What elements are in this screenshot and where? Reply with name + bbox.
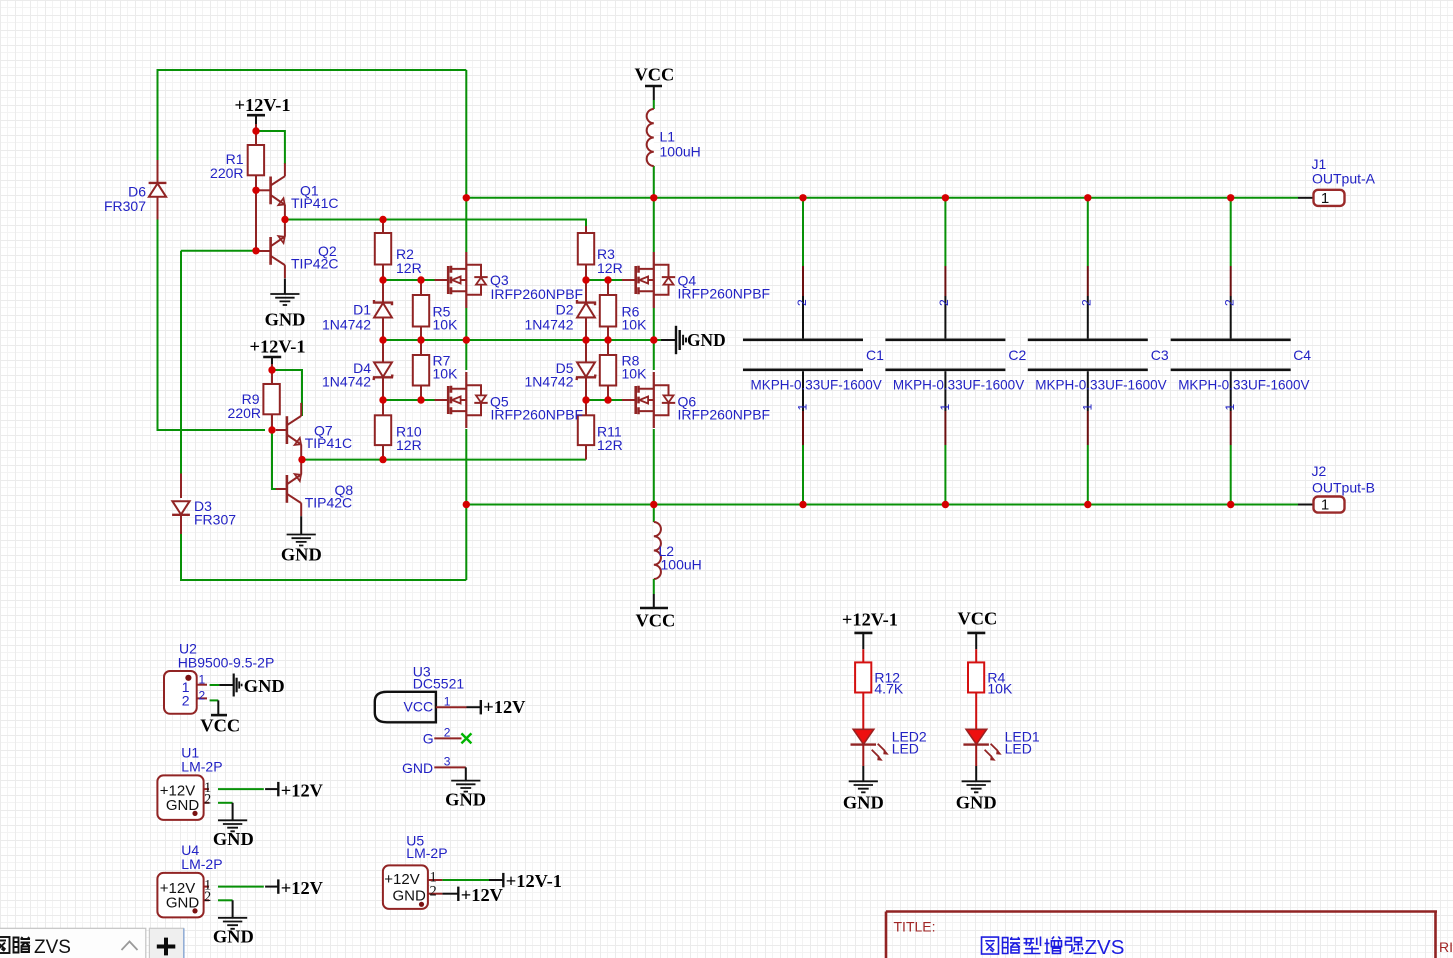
svg-text:+12V-1: +12V-1 bbox=[250, 337, 306, 357]
U3 pin 1 bbox=[436, 706, 467, 708]
node R6 top bbox=[604, 276, 611, 283]
svg-text:10K: 10K bbox=[433, 365, 459, 381]
node bottom rail x654 bbox=[650, 501, 657, 508]
svg-text:+12V: +12V bbox=[461, 885, 504, 905]
wire box bottom edge bbox=[180, 579, 466, 581]
wire bottom rail y=504.5 bbox=[466, 504, 1298, 506]
diode D6 bbox=[157, 160, 159, 183]
svg-text:OUTput-B: OUTput-B bbox=[1312, 479, 1375, 495]
svg-text:2: 2 bbox=[444, 725, 451, 739]
node +12V-1/R1 bbox=[252, 127, 259, 134]
svg-text:VCC: VCC bbox=[404, 699, 434, 715]
U5 pin 2 bbox=[428, 893, 443, 895]
U5 pin 1 bbox=[428, 879, 443, 881]
svg-text:4.7K: 4.7K bbox=[874, 680, 903, 696]
svg-text:TIP42C: TIP42C bbox=[305, 495, 352, 511]
node gnd rail x654 bbox=[650, 336, 657, 343]
node C3 top bbox=[1084, 194, 1091, 201]
wire top box edge bbox=[158, 69, 467, 71]
title text 图腾型增强ZVS (hand-drawn CJK) bbox=[982, 937, 1083, 954]
svg-text:12R: 12R bbox=[396, 260, 422, 276]
node Q7 base bbox=[268, 426, 275, 433]
svg-text:ZVS: ZVS bbox=[1085, 936, 1125, 958]
svg-text:LM-2P: LM-2P bbox=[406, 845, 447, 861]
svg-text:C2: C2 bbox=[1008, 347, 1026, 363]
wire x=181 column (Q2 base down to D3) bbox=[180, 251, 182, 474]
transistor Q8 bbox=[276, 459, 301, 516]
power flag +12V-1 (top) bbox=[247, 114, 265, 117]
zener diode D1 bbox=[382, 280, 384, 303]
no-connect flag X bbox=[461, 733, 471, 743]
transistor Q1 bbox=[260, 163, 285, 220]
svg-text:1N4742: 1N4742 bbox=[322, 317, 371, 333]
svg-text:FR307: FR307 bbox=[104, 198, 146, 214]
U4 pin 2 bbox=[204, 899, 209, 901]
svg-text:2: 2 bbox=[182, 693, 190, 709]
resistor R9 bbox=[271, 370, 273, 384]
BOTTOM TAB BAR bbox=[0, 928, 184, 958]
svg-text:IRFP260NPBF: IRFP260NPBF bbox=[678, 286, 771, 302]
transistor Q2 bbox=[260, 221, 285, 278]
svg-text:J2: J2 bbox=[1312, 463, 1327, 479]
svg-text:100uH: 100uH bbox=[660, 143, 701, 159]
node R7 bottom bbox=[417, 396, 424, 403]
svg-text:1: 1 bbox=[199, 672, 206, 686]
node C3 bottom bbox=[1084, 501, 1091, 508]
svg-text:L1: L1 bbox=[660, 128, 676, 144]
svg-text:VCC: VCC bbox=[200, 716, 240, 736]
node Q1/Q2 emitters bbox=[281, 216, 288, 223]
title block border bbox=[886, 912, 1437, 958]
wire main right column x=654 bbox=[653, 100, 655, 522]
power flag VCC U2 bbox=[211, 714, 227, 717]
svg-text:GND: GND bbox=[402, 760, 433, 776]
svg-text:1: 1 bbox=[1321, 497, 1329, 514]
node gnd rail x466 bbox=[463, 336, 470, 343]
svg-text:12R: 12R bbox=[396, 437, 422, 453]
node gate2 right bbox=[582, 396, 589, 403]
resistor R12 + LED2 column bbox=[849, 633, 889, 792]
svg-text:+12V: +12V bbox=[281, 781, 324, 801]
node R2 top bbox=[379, 216, 386, 223]
svg-text:3: 3 bbox=[444, 754, 451, 768]
wire gnd rail y=340 bbox=[383, 339, 661, 341]
svg-text:1N4742: 1N4742 bbox=[524, 317, 573, 333]
svg-text:GND: GND bbox=[687, 330, 726, 350]
svg-text:C3: C3 bbox=[1151, 347, 1169, 363]
svg-text:TIP41C: TIP41C bbox=[291, 195, 338, 211]
svg-text:+12V: +12V bbox=[384, 871, 419, 888]
svg-text:2: 2 bbox=[937, 299, 951, 306]
mosfet Q4 bbox=[622, 252, 675, 308]
wire below D3 to box bottom bbox=[180, 534, 182, 580]
svg-text:220R: 220R bbox=[210, 165, 243, 181]
resistor R8 bbox=[607, 340, 609, 355]
svg-text:RI: RI bbox=[1439, 939, 1453, 955]
node top rail x654 bbox=[650, 194, 657, 201]
svg-text:MKPH-0.33UF-1600V: MKPH-0.33UF-1600V bbox=[1035, 378, 1166, 393]
wire Q8 base link vertical bbox=[272, 430, 283, 489]
mosfet Q6 bbox=[622, 372, 675, 428]
wire +12V-1 to Q1 collector elbow bbox=[256, 131, 285, 164]
svg-text:FR307: FR307 bbox=[194, 512, 236, 528]
node R10 bottom bbox=[379, 456, 386, 463]
U2 pin 2 bbox=[197, 697, 207, 699]
resistor R1 bbox=[255, 131, 257, 145]
U4 pin 1 bbox=[204, 886, 209, 888]
svg-text:VCC: VCC bbox=[635, 65, 675, 85]
svg-text:220R: 220R bbox=[228, 405, 261, 421]
resistor R6 bbox=[607, 280, 609, 295]
connector J2 bbox=[1298, 504, 1314, 506]
svg-text:1: 1 bbox=[1223, 404, 1237, 411]
node C1 top bbox=[799, 194, 806, 201]
power flag +12V U1 bbox=[277, 782, 279, 796]
TITLE BLOCK bbox=[886, 912, 1453, 958]
U2 pin 1 bbox=[197, 684, 207, 686]
svg-text:2: 2 bbox=[795, 299, 809, 306]
capacitor C2 bbox=[885, 198, 1005, 505]
svg-text:GND: GND bbox=[956, 793, 997, 813]
node C4/J2 bbox=[1227, 501, 1234, 508]
svg-text:1: 1 bbox=[938, 404, 952, 411]
svg-text:GND: GND bbox=[445, 790, 486, 810]
svg-text:GND: GND bbox=[843, 793, 884, 813]
zener diode D5 bbox=[585, 340, 587, 362]
svg-text:TIP42C: TIP42C bbox=[291, 256, 338, 272]
svg-text:VCC: VCC bbox=[958, 609, 998, 629]
U1 pin 1 bbox=[204, 788, 209, 790]
wire gate row 1 right bbox=[586, 279, 624, 281]
ground under Q8 bbox=[300, 516, 302, 534]
resistor R4 + LED1 column bbox=[962, 633, 1002, 792]
wire gate row 1 left bbox=[383, 279, 436, 281]
node Q7/Q8 emitters bbox=[298, 456, 305, 463]
node R5 top bbox=[417, 276, 424, 283]
svg-text:IRFP260NPBF: IRFP260NPBF bbox=[491, 406, 584, 422]
svg-text:10K: 10K bbox=[622, 365, 648, 381]
resistor R7 bbox=[420, 340, 422, 355]
ground flag U1 bbox=[218, 820, 247, 831]
power flag +12V-1 (second) bbox=[263, 356, 281, 359]
node C1 bottom bbox=[799, 501, 806, 508]
wire main left column x=466 bbox=[465, 70, 467, 580]
resistor R5 bbox=[420, 280, 422, 295]
inductor L2 + power flag VCC bottom bbox=[654, 522, 661, 579]
resistor R3 bbox=[585, 226, 587, 233]
svg-text:2: 2 bbox=[204, 791, 211, 807]
svg-text:C4: C4 bbox=[1293, 347, 1311, 363]
power flag +12V U4 bbox=[277, 879, 279, 893]
wire red R1 bottom to Q2 base bbox=[255, 190, 257, 251]
svg-text:LM-2P: LM-2P bbox=[181, 758, 222, 774]
U COMPONENTS bbox=[157, 641, 562, 947]
wire emitter row Q7/Q8 y=459.6 bbox=[302, 459, 586, 461]
wire Q7 collector elbow from +12V-1 node bbox=[272, 370, 302, 416]
svg-text:GND: GND bbox=[281, 545, 322, 565]
svg-text:+12V: +12V bbox=[483, 697, 526, 717]
mosfet Q5 bbox=[435, 372, 488, 428]
node rail D2 bbox=[582, 336, 589, 343]
node rail R5 bbox=[417, 336, 424, 343]
svg-text:ZVS: ZVS bbox=[34, 937, 71, 958]
power flag VCC top + inductor L1 bbox=[645, 85, 662, 88]
wire top rail y=198 bbox=[466, 197, 1298, 199]
ground flag U2 (rotated) bbox=[234, 674, 242, 697]
node Q1 base bbox=[252, 187, 259, 194]
svg-text:GND: GND bbox=[213, 927, 254, 947]
node +12V-1/R9 bbox=[268, 366, 275, 373]
mosfet Q3 bbox=[435, 252, 488, 308]
svg-text:IRFP260NPBF: IRFP260NPBF bbox=[491, 286, 584, 302]
svg-text:1: 1 bbox=[1080, 404, 1094, 411]
svg-text:TIP41C: TIP41C bbox=[305, 435, 352, 451]
ground flag U3 bbox=[451, 781, 480, 792]
svg-text:HB9500-9.5-2P: HB9500-9.5-2P bbox=[178, 654, 275, 670]
node rail R6 bbox=[604, 336, 611, 343]
node gate1 left bbox=[379, 276, 386, 283]
svg-text:1: 1 bbox=[1321, 190, 1329, 207]
svg-text:MKPH-0.33UF-1600V: MKPH-0.33UF-1600V bbox=[1178, 378, 1309, 393]
svg-text:2: 2 bbox=[199, 689, 206, 703]
svg-text:TITLE:: TITLE: bbox=[894, 919, 936, 935]
wire left column lower (D6 to Q7 base row) bbox=[158, 220, 266, 431]
svg-text:1: 1 bbox=[444, 695, 451, 709]
svg-text:GND: GND bbox=[265, 310, 306, 330]
ground under Q2 bbox=[284, 279, 286, 295]
svg-text:+12V: +12V bbox=[281, 878, 324, 898]
svg-text:100uH: 100uH bbox=[661, 556, 702, 572]
svg-text:2: 2 bbox=[430, 883, 437, 899]
svg-text:MKPH-0.33UF-1600V: MKPH-0.33UF-1600V bbox=[751, 378, 882, 393]
svg-text:GND: GND bbox=[213, 829, 254, 849]
wire gate row 2 left bbox=[383, 399, 436, 401]
svg-text:1N4742: 1N4742 bbox=[322, 374, 371, 390]
svg-text:+12V-1: +12V-1 bbox=[506, 871, 562, 891]
U1 pin 2 bbox=[204, 802, 209, 804]
svg-text:MKPH-0.33UF-1600V: MKPH-0.33UF-1600V bbox=[893, 378, 1024, 393]
ground flag U4 bbox=[218, 918, 247, 929]
wire left column upper (to D6) bbox=[157, 69, 159, 160]
node C2 bottom bbox=[942, 501, 949, 508]
node bottom rail x466 bbox=[463, 501, 470, 508]
diode D3 bbox=[180, 474, 182, 499]
svg-text:OUTput-A: OUTput-A bbox=[1312, 171, 1376, 187]
power flag +12V U5 bbox=[457, 887, 459, 901]
svg-text:LED: LED bbox=[1005, 741, 1032, 757]
node Q2 base bbox=[252, 247, 259, 254]
svg-text:10K: 10K bbox=[433, 317, 459, 333]
connector J1 bbox=[1298, 197, 1314, 199]
svg-text:2: 2 bbox=[204, 889, 211, 905]
ground flag mid rail (rotated) bbox=[661, 339, 676, 341]
svg-text:D1: D1 bbox=[353, 301, 371, 317]
wire Q1/Q2 emitter row y=219.5 to R3 top bbox=[285, 220, 586, 229]
svg-text:1N4742: 1N4742 bbox=[524, 374, 573, 390]
zener diode D4 bbox=[382, 340, 384, 362]
svg-text:D2: D2 bbox=[556, 301, 574, 317]
node gate1 right bbox=[582, 276, 589, 283]
svg-text:12R: 12R bbox=[597, 260, 623, 276]
power flag +12V U3 bbox=[480, 700, 482, 714]
resistor R11 bbox=[585, 400, 587, 415]
svg-text:12R: 12R bbox=[597, 437, 623, 453]
svg-text:1: 1 bbox=[796, 404, 810, 411]
svg-text:VCC: VCC bbox=[636, 611, 676, 631]
svg-text:DC5521: DC5521 bbox=[413, 675, 465, 691]
resistor R2 bbox=[382, 220, 384, 234]
transistor Q7 bbox=[276, 403, 301, 460]
zener diode D2 bbox=[585, 280, 587, 303]
node R8 bottom bbox=[604, 396, 611, 403]
svg-text:LM-2P: LM-2P bbox=[181, 856, 222, 872]
power flag +12V-1 U5 bbox=[502, 873, 504, 887]
node C4/J1 bbox=[1227, 194, 1234, 201]
svg-text:+12V-1: +12V-1 bbox=[842, 610, 898, 630]
svg-text:IRFP260NPBF: IRFP260NPBF bbox=[678, 406, 771, 422]
node gate2 left bbox=[379, 396, 386, 403]
svg-text:2: 2 bbox=[1080, 299, 1094, 306]
svg-text:GND: GND bbox=[244, 676, 285, 696]
node top rail x466 bbox=[463, 194, 470, 201]
capacitor C1 bbox=[743, 198, 863, 505]
svg-text:LED: LED bbox=[892, 741, 919, 757]
svg-text:2: 2 bbox=[1223, 299, 1237, 306]
resistor R10 bbox=[382, 400, 384, 415]
svg-text:+12V-1: +12V-1 bbox=[235, 95, 291, 115]
wire Q2 base from x=181 bbox=[181, 250, 253, 252]
wire gate row 2 right bbox=[586, 399, 624, 401]
svg-text:G: G bbox=[423, 731, 434, 747]
capacitor C3 bbox=[1028, 198, 1148, 505]
node C2 top bbox=[942, 194, 949, 201]
capacitor C4 bbox=[1171, 198, 1291, 505]
svg-text:C1: C1 bbox=[866, 347, 884, 363]
node rail D1 bbox=[379, 336, 386, 343]
svg-text:10K: 10K bbox=[622, 317, 648, 333]
svg-text:10K: 10K bbox=[987, 680, 1013, 696]
